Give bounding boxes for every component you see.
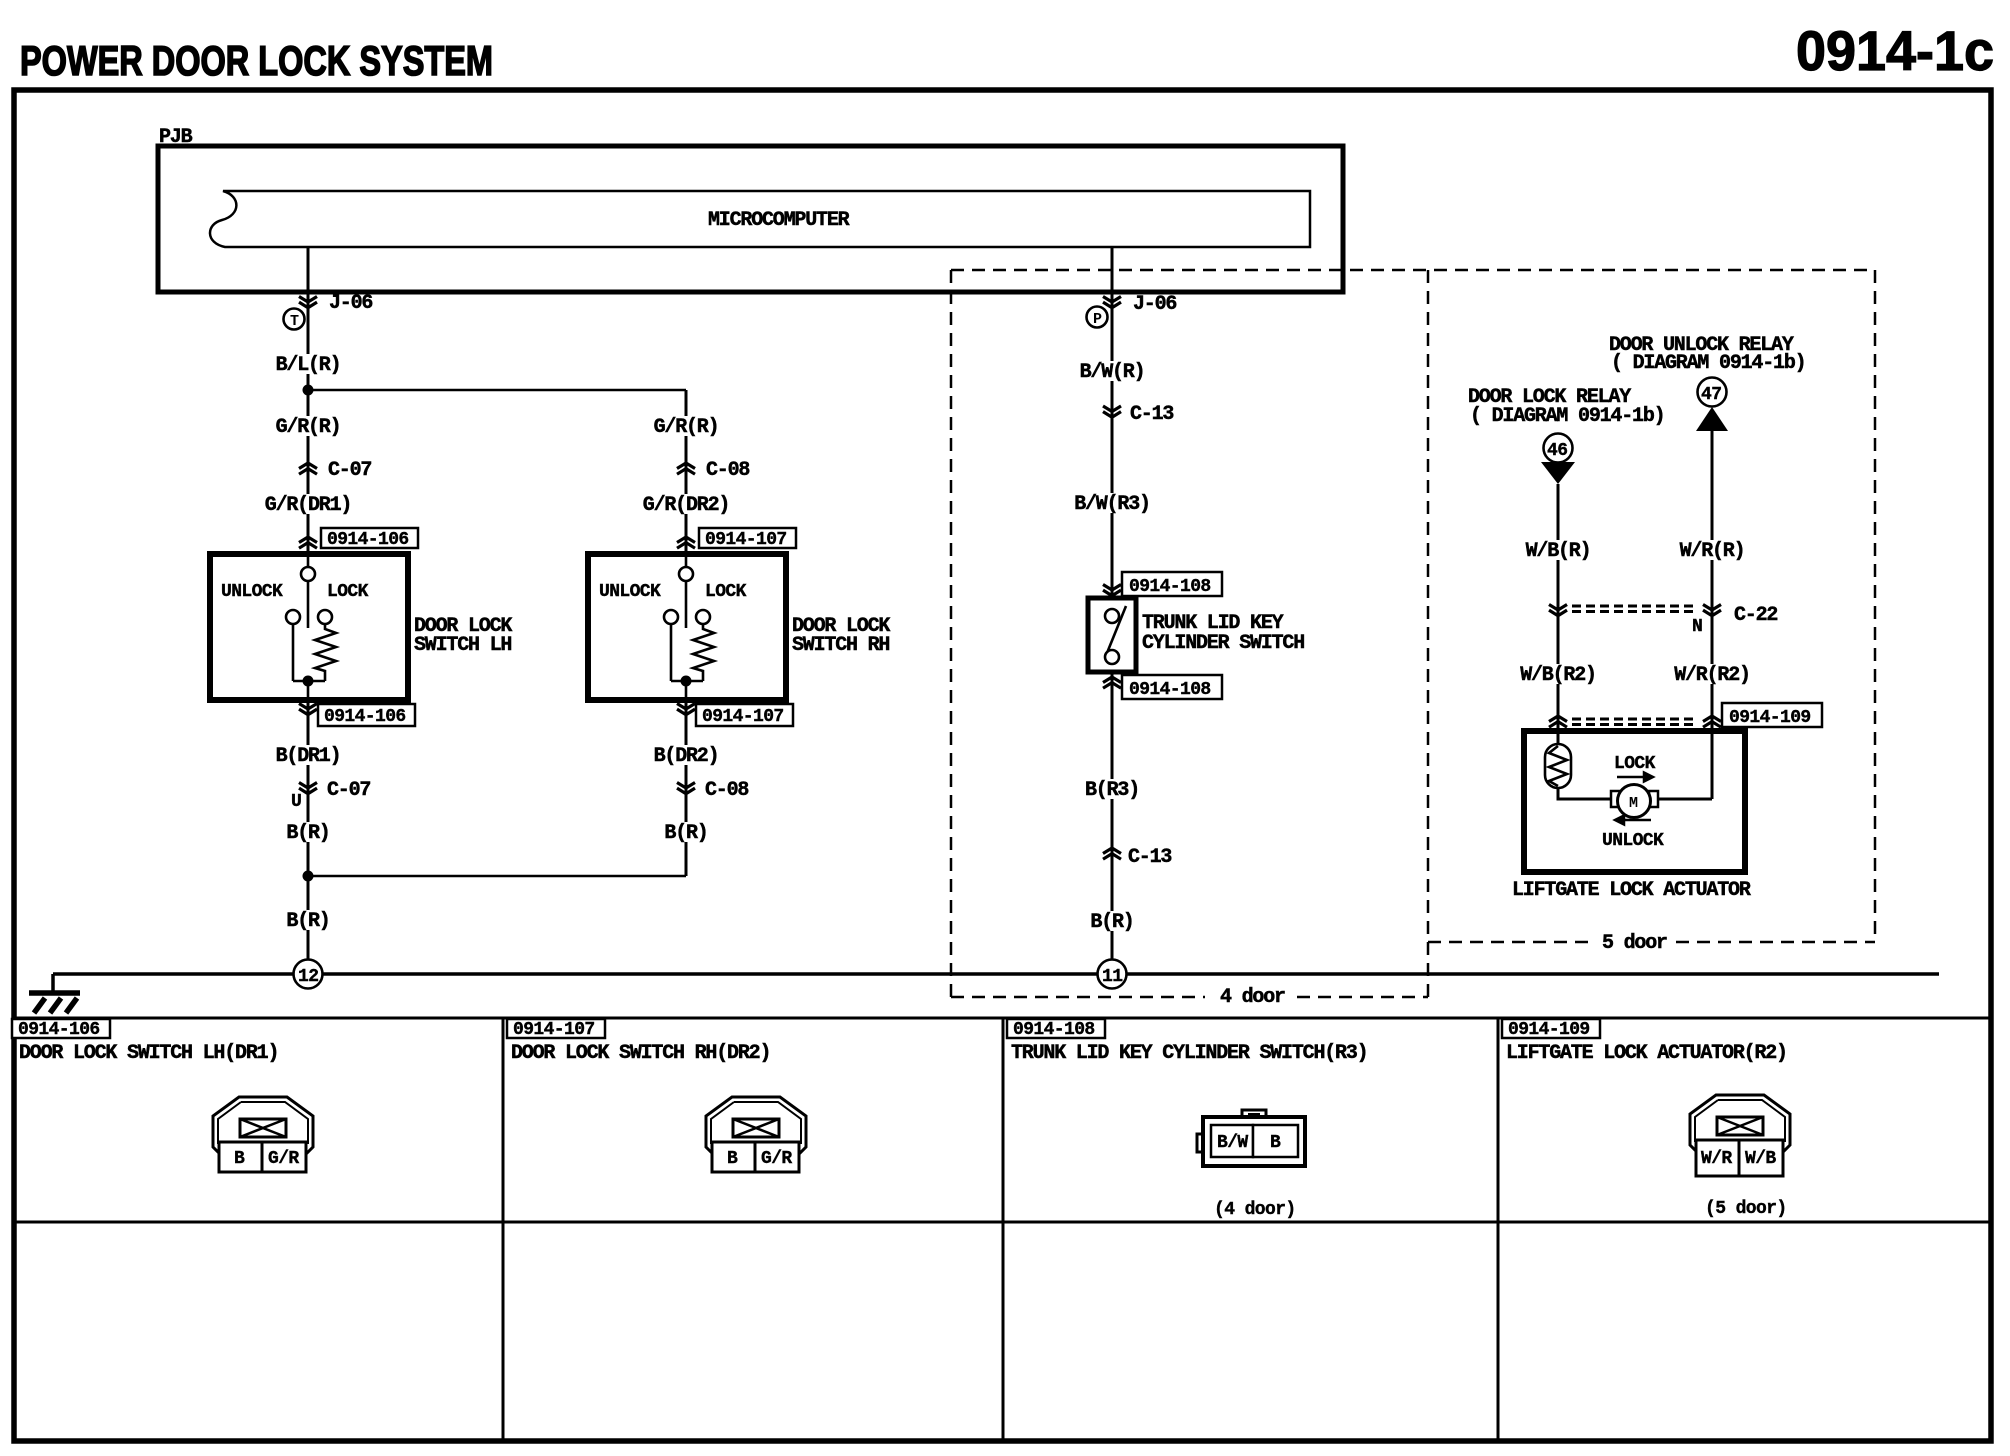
pin P circle [1087,307,1108,328]
connector chevron above trunk switch (down) [1103,585,1121,596]
wire label G/R(DR1) [261,494,356,514]
svg-text:B(R): B(R) [286,822,329,845]
wire label W/B(R) [1522,540,1595,560]
svg-text:LIFTGATE LOCK ACTUATOR(R2): LIFTGATE LOCK ACTUATOR(R2) [1506,1042,1787,1065]
svg-text:B(R): B(R) [1090,911,1133,934]
switch SW1 internals [286,554,336,700]
node junction below B/L(R) [303,385,314,396]
wire: relay 47 to actuator (W/R) [1711,431,1714,799]
svg-text:5 door: 5 door [1602,932,1667,955]
svg-text:W/R(R): W/R(R) [1680,540,1745,563]
connector chevron above switch RH (up) [677,537,695,548]
connector chevron below switch RH (down) [677,704,695,715]
svg-text:(5 door): (5 door) [1705,1199,1787,1219]
5 door dashed region [1428,270,1875,942]
svg-text:0914-107: 0914-107 [513,1020,595,1040]
svg-text:B/W: B/W [1217,1133,1248,1153]
svg-text:B/W(R3): B/W(R3) [1074,493,1150,516]
connector J-06 chevron (middle) [1103,297,1121,308]
pin T circle [284,309,305,330]
connector 0914-109 dashed pair [1572,719,1698,725]
svg-text:LIFTGATE LOCK ACTUATOR: LIFTGATE LOCK ACTUATOR [1512,879,1751,902]
svg-text:0914-107: 0914-107 [702,707,784,727]
svg-text:0914-106: 0914-106 [327,530,409,550]
boxed label 0914-108 (top) [1122,572,1222,596]
svg-text:0914-109: 0914-109 [1729,708,1811,728]
motor M1 [1611,791,1620,807]
connector chevron above switch LH (up) [299,537,317,548]
svg-text:UNLOCK: UNLOCK [221,582,283,602]
svg-text:UNLOCK: UNLOCK [1602,831,1664,851]
svg-text:M: M [1629,795,1638,812]
svg-text:T: T [290,313,299,330]
svg-text:(4 door): (4 door) [1214,1200,1296,1220]
boxed label 0914-106 (bottom) [318,704,415,726]
wire: motor to right leg [1658,798,1712,801]
wire label B(DR1) [272,745,345,765]
connector C-22 chevrons [1549,605,1567,616]
svg-text:0914-106: 0914-106 [18,1020,100,1040]
svg-text:C-08: C-08 [706,459,749,482]
actuator coil L1 [1545,744,1571,788]
svg-text:0914-107: 0914-107 [705,530,787,550]
svg-text:( DIAGRAM 0914-1b): ( DIAGRAM 0914-1b) [1470,405,1664,428]
svg-text:B: B [727,1149,738,1169]
wire label B(R3) [1081,779,1143,799]
arrow from door lock relay (down triangle) [1541,462,1575,484]
connector C-13 chevron (down) [1103,406,1121,417]
svg-text:SWITCH RH: SWITCH RH [792,634,889,657]
svg-text:LOCK: LOCK [705,582,747,602]
svg-text:( DIAGRAM 0914-1b): ( DIAGRAM 0914-1b) [1611,352,1805,375]
connector chevron below trunk switch (up) [1103,677,1121,688]
wire: microcomputer to door lock switches (left column) [307,247,310,554]
svg-text:C-08: C-08 [705,779,748,802]
wire label B(R) left [283,822,334,842]
boxed label 0914-107 (bottom) [696,704,793,726]
connector C-22 dashed pair [1572,606,1698,612]
PJB box [158,146,1343,292]
connector chevron below switch LH (down) [299,704,317,715]
svg-text:DOOR LOCK SWITCH LH(DR1): DOOR LOCK SWITCH LH(DR1) [19,1042,278,1065]
ground symbol [29,993,80,1013]
door lock switch RH box [588,554,786,700]
ground bus wire [53,972,1939,976]
svg-text:0914-108: 0914-108 [1129,577,1211,597]
svg-text:B(R): B(R) [664,822,707,845]
svg-text:47: 47 [1701,385,1721,405]
svg-text:J-06: J-06 [329,292,372,315]
wire label G/R(R) left [272,416,345,436]
connector C-13 chevron lower (up) [1103,848,1121,859]
svg-text:B(DR1): B(DR1) [276,745,341,768]
wire label W/R(R) [1676,540,1749,560]
4 door dashed region [951,270,1875,997]
svg-text:LOCK: LOCK [1614,754,1656,774]
wire label B(R) right [661,822,712,842]
wire: microcomputer to trunk switch (middle column) [1111,247,1114,598]
relay terminal 47 circle [1698,378,1727,407]
svg-text:CYLINDER SWITCH: CYLINDER SWITCH [1142,632,1304,655]
boxed label 0914-106 (top) [321,528,418,548]
svg-text:P: P [1093,311,1102,328]
svg-text:B: B [1270,1133,1281,1153]
svg-text:G/R(R): G/R(R) [654,416,719,439]
trunk lid key cylinder switch SW3 box [1088,598,1136,672]
wire: switch RH down [685,700,688,876]
relay terminal 46 circle [1544,434,1573,463]
wire label B/L(R) [272,354,345,374]
connector icon 0914-106 [213,1097,313,1172]
svg-text:C-13: C-13 [1130,403,1173,426]
svg-text:MICROCOMPUTER: MICROCOMPUTER [708,209,850,232]
connector icon 0914-107 [706,1097,806,1172]
svg-text:0914-106: 0914-106 [324,707,406,727]
svg-text:0914-108: 0914-108 [1129,680,1211,700]
svg-text:4 door: 4 door [1220,986,1285,1009]
svg-text:B/W(R): B/W(R) [1080,361,1145,384]
svg-text:W/R(R2): W/R(R2) [1674,664,1750,687]
svg-text:U: U [291,792,301,812]
wire label B/W(R) [1076,361,1149,381]
svg-text:PJB: PJB [159,126,193,149]
svg-text:G/R: G/R [761,1149,792,1169]
node junction lower left [303,871,314,882]
wire: trunk switch to ground node 11 [1111,672,1114,962]
wire label G/R(DR2) [639,494,734,514]
LOCK arrow [1617,773,1653,782]
svg-text:0914-1c: 0914-1c [1796,19,1994,82]
svg-text:G/R(DR2): G/R(DR2) [643,494,729,517]
connector icon 0914-109 [1690,1095,1790,1176]
wire label B(R) lower [283,910,334,930]
svg-text:G/R(R): G/R(R) [276,416,341,439]
boxed label 0914-108 (bottom) [1122,675,1222,699]
connector C-08 chevron (up) [677,463,695,474]
wire label B(DR2) [650,745,723,765]
wire: coil to motor [1558,788,1611,799]
ground node 11 circle [1098,960,1127,989]
table label box 0914-106 [12,1019,110,1038]
UNLOCK arrow [1615,816,1651,825]
svg-text:B(R3): B(R3) [1085,779,1139,802]
wire: left junction to right branch [308,389,686,392]
svg-text:J-06: J-06 [1133,293,1176,316]
svg-text:C-13: C-13 [1128,846,1171,869]
svg-text:W/B(R2): W/B(R2) [1520,664,1596,687]
boxed label 0914-107 (top) [699,528,796,548]
microcomputer U1 box with break squiggle [210,191,1310,247]
svg-text:W/R: W/R [1701,1149,1732,1169]
wire label W/B(R2) [1516,664,1600,684]
svg-text:C-07: C-07 [328,459,371,482]
svg-text:0914-109: 0914-109 [1508,1020,1590,1040]
svg-text:DOOR LOCK SWITCH RH(DR2): DOOR LOCK SWITCH RH(DR2) [511,1042,770,1065]
svg-text:W/B: W/B [1745,1149,1776,1169]
wire label B/W(R3) [1070,493,1154,513]
liftgate lock actuator box [1524,731,1745,872]
wire label B(R) middle [1087,911,1138,931]
svg-text:12: 12 [298,967,318,987]
wire: relay 46 to actuator (W/B) [1557,484,1560,744]
svg-text:N: N [1692,617,1702,637]
boxed label 0914-109 [1722,703,1822,727]
svg-text:0914-108: 0914-108 [1013,1020,1095,1040]
svg-text:46: 46 [1547,441,1567,461]
svg-text:B(R): B(R) [286,910,329,933]
svg-text:11: 11 [1102,967,1123,987]
table label box 0914-109 [1502,1019,1600,1038]
connector C-08 chevron lower (down) [677,783,695,794]
svg-text:POWER DOOR LOCK SYSTEM: POWER DOOR LOCK SYSTEM [20,37,493,84]
svg-text:LOCK: LOCK [327,582,369,602]
svg-text:W/B(R): W/B(R) [1526,540,1591,563]
svg-text:G/R: G/R [268,1149,299,1169]
connector C-07 chevron lower (down) [299,783,317,794]
svg-text:TRUNK LID KEY CYLINDER SWITCH(: TRUNK LID KEY CYLINDER SWITCH(R3) [1011,1042,1367,1065]
svg-text:UNLOCK: UNLOCK [599,582,661,602]
connector C-07 chevron (up) [299,463,317,474]
wire: lower junction to right branch [308,875,686,878]
ground lead [51,974,55,991]
arrow to door unlock relay (up triangle) [1696,407,1728,431]
connector icon 0914-108 [1197,1110,1305,1166]
svg-text:C-22: C-22 [1734,604,1777,627]
wire label W/R(R2) [1670,664,1754,684]
ground node 12 circle [294,960,323,989]
wire: switch LH to ground node 12 [307,700,310,962]
bottom connector table grid [14,1018,1991,1441]
svg-text:C-07: C-07 [327,779,370,802]
door lock switch LH box [210,554,408,700]
table label box 0914-108 [1007,1019,1105,1038]
table label box 0914-107 [507,1019,605,1038]
svg-text:B: B [234,1149,245,1169]
svg-text:B(DR2): B(DR2) [654,745,719,768]
svg-text:G/R(DR1): G/R(DR1) [265,494,351,517]
connector J-06 chevron (left) [299,297,317,308]
svg-text:SWITCH LH: SWITCH LH [414,634,511,657]
wire label G/R(R) right [650,416,723,436]
switch SW2 internals [664,554,714,700]
wire: right branch down to switch RH [685,390,688,554]
connector 0914-109 chevrons [1549,716,1567,727]
svg-text:B/L(R): B/L(R) [276,354,341,377]
